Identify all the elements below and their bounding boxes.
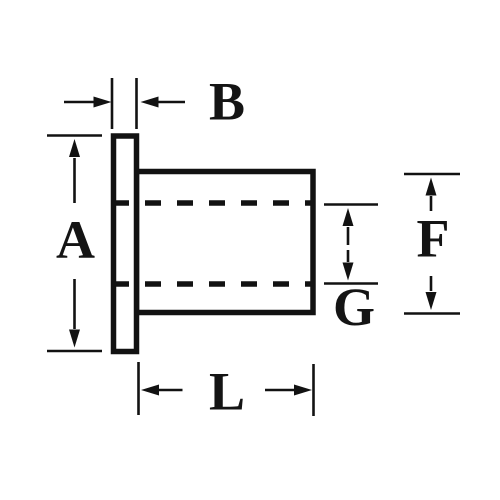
- dimension A bottom tick: [47, 350, 102, 353]
- svg-text:B: B: [209, 72, 245, 132]
- dimension G bottom tick: [324, 282, 378, 285]
- dimension B extension line right: [135, 78, 138, 129]
- svg-text:L: L: [209, 362, 245, 422]
- bore hidden line lower (dashed): [113, 281, 311, 287]
- dimension G up arrow: [343, 208, 354, 245]
- label F: [417, 209, 450, 269]
- dimension L left arrow: [141, 385, 183, 396]
- dimension F bottom tick: [404, 312, 460, 315]
- dimension F top tick: [404, 173, 460, 176]
- label L: [209, 362, 245, 422]
- svg-text:F: F: [417, 209, 450, 269]
- label B: [209, 72, 245, 132]
- dimension A top tick: [47, 134, 102, 137]
- dimension A down arrow: [69, 279, 80, 348]
- dimension F down arrow: [426, 276, 437, 310]
- dimension G down arrow: [343, 250, 354, 281]
- dimension L extension line right: [312, 364, 315, 416]
- dimension L right arrow: [265, 385, 312, 396]
- svg-text:A: A: [56, 210, 95, 270]
- label G: [333, 277, 375, 337]
- dimension A up arrow: [69, 139, 80, 203]
- bore hidden line upper (dashed): [113, 200, 311, 206]
- flange outline: [114, 136, 137, 352]
- bushing body outline: [137, 172, 314, 313]
- dimension F up arrow: [426, 178, 437, 212]
- dimension G top tick: [324, 203, 378, 206]
- label A: [56, 210, 95, 270]
- dimension B left arrow: [64, 97, 112, 108]
- dimension B right arrow: [141, 97, 186, 108]
- dimension B extension line left: [111, 78, 114, 129]
- svg-text:G: G: [333, 277, 375, 337]
- dimension L extension line left: [137, 362, 140, 415]
